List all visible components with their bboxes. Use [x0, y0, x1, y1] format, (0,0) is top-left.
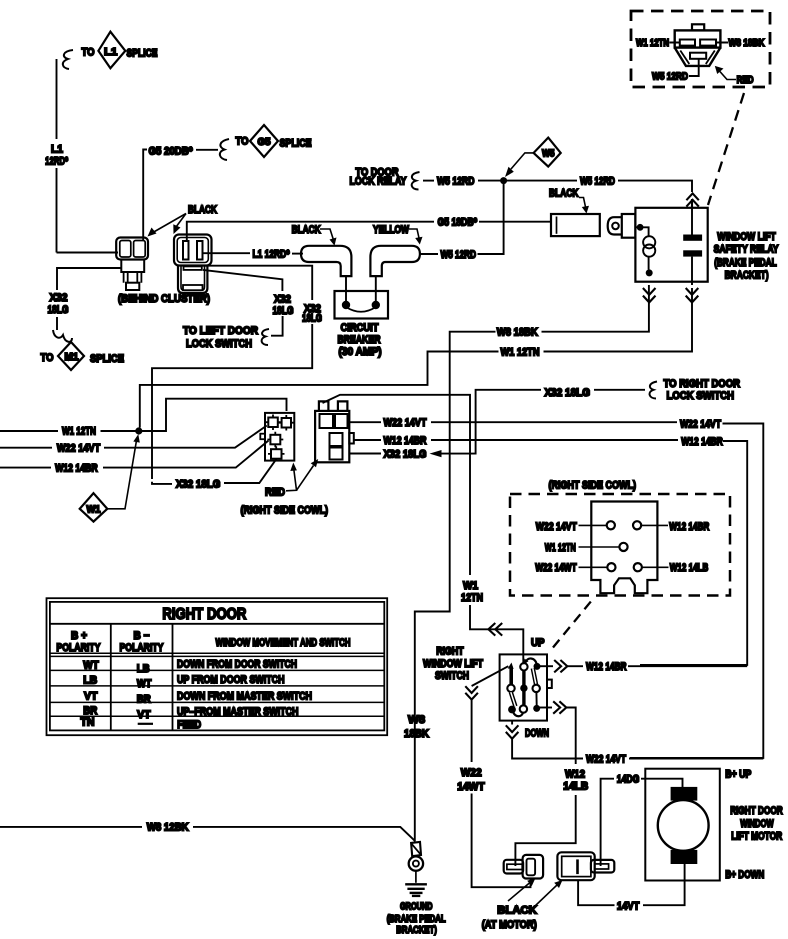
wire G5 20DB*	[143, 150, 147, 241]
svg-text:B −: B −	[134, 630, 150, 642]
svg-text:X32 18LG: X32 18LG	[176, 479, 220, 491]
svg-text:YELLOW: YELLOW	[373, 224, 409, 236]
wire W1 12TN from right block to switch	[323, 395, 471, 575]
svg-text:WINDOW LIFT: WINDOW LIFT	[423, 658, 483, 670]
wire W22 14VT from switch bottom	[511, 721, 513, 725]
svg-text:WT: WT	[137, 678, 152, 690]
svg-text:W5 12RD: W5 12RD	[652, 71, 688, 82]
pointer from W5 splice to junction	[511, 153, 534, 169]
wire W12 14BR from right block	[354, 439, 381, 441]
pin squares with nubs	[268, 418, 278, 428]
connector chevrons below relay left pin	[643, 288, 656, 302]
svg-text:W12 14BR: W12 14BR	[669, 521, 709, 533]
svg-text:TO: TO	[41, 352, 54, 364]
svg-text:RIGHT: RIGHT	[436, 645, 464, 657]
svg-text:TO: TO	[82, 47, 95, 59]
connector chevrons on W12 14LB	[553, 701, 566, 713]
svg-text:W12 14BR: W12 14BR	[586, 661, 627, 673]
connector chevrons on W22 14WT	[465, 686, 478, 699]
connector chevrons on W12 14BR	[554, 660, 567, 672]
inline connector at motor (left half)	[504, 855, 543, 879]
svg-text:W22: W22	[461, 767, 482, 779]
svg-text:W8 12BK: W8 12BK	[147, 822, 189, 834]
svg-text:BLACK: BLACK	[549, 188, 579, 200]
svg-text:LOCK RELAY: LOCK RELAY	[350, 176, 408, 188]
svg-text:TO LEFT DOOR: TO LEFT DOOR	[183, 325, 258, 337]
wire L1 12RD into left cluster connector	[57, 252, 119, 254]
svg-text:18LG: 18LG	[273, 305, 294, 317]
wire X32 18LG into cowl block	[152, 482, 172, 484]
wire W1 12TN from relay	[544, 288, 693, 352]
pin W22 14WT	[607, 563, 615, 571]
svg-text:BR: BR	[83, 705, 97, 717]
relay U window lift safety relay	[608, 208, 708, 285]
svg-text:BRACKET): BRACKET)	[725, 270, 769, 282]
svg-text:W5 12RD: W5 12RD	[580, 175, 615, 187]
svg-text:L1: L1	[104, 47, 117, 58]
svg-text:(RIGHT SIDE COWL): (RIGHT SIDE COWL)	[549, 480, 637, 492]
svg-text:VT: VT	[84, 690, 98, 702]
wire break to left door lock switch	[262, 329, 269, 345]
svg-text:(RIGHT SIDE COWL): (RIGHT SIDE COWL)	[241, 505, 329, 517]
svg-text:WINDOW: WINDOW	[740, 818, 774, 830]
svg-text:W22 14WT: W22 14WT	[535, 562, 577, 574]
svg-text:LOCK SWITCH: LOCK SWITCH	[667, 390, 735, 402]
svg-text:B +: B +	[71, 630, 87, 642]
pin leader lines	[579, 525, 669, 567]
svg-text:POLARITY: POLARITY	[56, 642, 101, 654]
svg-text:DOWN FROM DOOR SWITCH: DOWN FROM DOOR SWITCH	[177, 658, 297, 670]
svg-text:WINDOW LIFT: WINDOW LIFT	[717, 231, 776, 243]
connector (behind cluster) left	[116, 238, 148, 291]
svg-text:SPLICE: SPLICE	[280, 138, 312, 150]
dashed detail box	[510, 494, 730, 596]
svg-text:W22 14VT: W22 14VT	[536, 521, 577, 533]
svg-text:W8 18BK: W8 18BK	[729, 38, 766, 49]
svg-text:X32 18LG: X32 18LG	[545, 387, 591, 399]
wire W22 14WT from switch pole1	[472, 666, 509, 686]
fusible link black (cover)	[551, 214, 600, 236]
wire W8 12BK ground feed	[0, 826, 142, 828]
pin W8 18BK	[700, 40, 716, 46]
svg-text:(AT MOTOR): (AT MOTOR)	[482, 919, 537, 931]
svg-text:UP: UP	[531, 637, 545, 649]
wire W12 14BR from switch pole3	[540, 665, 553, 667]
svg-text:WT: WT	[83, 659, 99, 671]
svg-text:W22 14VT: W22 14VT	[680, 418, 721, 430]
table right door polarity	[47, 598, 388, 735]
node relay coil top	[637, 224, 644, 231]
svg-text:SPLICE: SPLICE	[127, 48, 158, 60]
svg-text:DOWN: DOWN	[525, 728, 549, 740]
svg-text:BRACKET): BRACKET)	[396, 925, 437, 936]
svg-text:CIRCUIT: CIRCUIT	[341, 322, 379, 334]
wire break to G5 splice	[220, 139, 229, 160]
svg-text:W8: W8	[408, 714, 425, 726]
switch S right window lift switch	[500, 654, 552, 720]
connector chevrons below relay right pin	[686, 288, 699, 302]
wire X32 18LG from cluster middle slot	[202, 266, 312, 300]
svg-text:W8 18BK: W8 18BK	[497, 327, 538, 339]
svg-text:G5: G5	[258, 137, 271, 148]
connector chevrons into relay top	[686, 193, 698, 207]
svg-text:UP FROM DOOR SWITCH: UP FROM DOOR SWITCH	[177, 674, 285, 686]
splice symbol M1	[41, 342, 125, 370]
wire W22 14VT left rail	[0, 447, 52, 449]
svg-text:W22 14VT: W22 14VT	[57, 443, 101, 455]
pole 2 contacts	[520, 663, 527, 670]
svg-text:18LG: 18LG	[302, 312, 322, 324]
svg-text:W1 12TN: W1 12TN	[545, 542, 576, 554]
svg-text:RED: RED	[265, 486, 285, 498]
svg-text:(BRAKE PEDAL: (BRAKE PEDAL	[714, 257, 777, 269]
relay pigtail connector (inset)	[631, 11, 770, 87]
wire W5 12RD from yellow elbow	[420, 253, 438, 255]
wire break to right door lock switch	[650, 382, 657, 399]
svg-text:(BEHIND CLUSTER): (BEHIND CLUSTER)	[118, 293, 210, 305]
wire W22 14VT from right block	[349, 421, 381, 423]
svg-text:W1 12TN: W1 12TN	[636, 38, 669, 49]
svg-text:W12 14BR: W12 14BR	[681, 436, 723, 448]
svg-text:W1 12TN: W1 12TN	[501, 347, 540, 359]
svg-text:18BK: 18BK	[404, 728, 429, 740]
svg-text:(BRAKE PEDAL: (BRAKE PEDAL	[387, 914, 446, 925]
pin W12 14BR	[633, 521, 641, 529]
svg-text:RIGHT DOOR: RIGHT DOOR	[162, 606, 246, 623]
svg-text:LB: LB	[137, 663, 150, 675]
splice symbol G5	[236, 125, 312, 157]
svg-text:(30 AMP): (30 AMP)	[339, 346, 382, 358]
svg-text:14DG: 14DG	[617, 774, 640, 786]
svg-text:W22 14VT: W22 14VT	[586, 754, 626, 766]
cowl inline connector (inset)	[510, 480, 730, 596]
svg-text:TO: TO	[236, 136, 249, 148]
svg-text:TN: TN	[81, 717, 95, 729]
wire boot yellow (elbow)	[370, 246, 420, 276]
wire X32 18LG from right block	[349, 453, 381, 455]
svg-text:X32: X32	[274, 294, 291, 306]
node W1 junction	[135, 427, 142, 434]
svg-text:RIGHT DOOR: RIGHT DOOR	[730, 805, 783, 817]
connector chevrons below switch	[506, 725, 519, 738]
column separators	[111, 624, 173, 731]
wire boot black (elbow)	[301, 246, 351, 276]
svg-text:SWITCH: SWITCH	[435, 670, 469, 682]
wire W5 12RD right segment	[504, 180, 577, 182]
svg-text:W12 14BR: W12 14BR	[384, 435, 427, 447]
svg-text:LIFT MOTOR: LIFT MOTOR	[731, 831, 782, 843]
svg-text:W22 14VT: W22 14VT	[384, 417, 427, 429]
pin W22 14VT	[607, 521, 615, 529]
wire 14VT motor return	[643, 864, 685, 905]
svg-text:W5 12RD: W5 12RD	[441, 249, 477, 261]
wire W12 14BR left rail	[0, 467, 51, 469]
svg-text:UP–FROM MASTER SWITCH: UP–FROM MASTER SWITCH	[177, 706, 299, 718]
pin W1 12TN	[619, 543, 627, 551]
connector housing	[692, 24, 704, 30]
svg-text:SPLICE: SPLICE	[90, 353, 124, 365]
svg-text:M1: M1	[65, 352, 79, 363]
wire W1 12TN left rail	[0, 430, 58, 432]
wire L1 12RD* to elbow	[203, 252, 251, 254]
wire elbow to breaker right	[375, 276, 377, 301]
svg-text:LB: LB	[83, 674, 97, 686]
svg-text:WINDOW MOVEMENT AND SWITCH: WINDOW MOVEMENT AND SWITCH	[216, 637, 351, 649]
pole 1 contacts	[508, 663, 514, 670]
wire 14DG motor feed	[601, 779, 614, 866]
dashed leader from switch to cowl inset	[553, 600, 593, 648]
svg-text:L1 12RD*: L1 12RD*	[253, 249, 291, 261]
circuit breaker (30 amp)	[335, 291, 389, 319]
svg-text:B+ DOWN: B+ DOWN	[725, 869, 764, 881]
pin W12 14LB	[634, 563, 642, 571]
svg-text:X32 18LG: X32 18LG	[384, 448, 427, 460]
svg-text:SAFETY RELAY: SAFETY RELAY	[714, 244, 780, 256]
splice symbol W5	[534, 138, 561, 167]
pin W5 12RD	[690, 53, 706, 59]
connector block left (right side cowl)	[260, 413, 294, 462]
svg-text:BR: BR	[137, 693, 151, 705]
svg-text:X32: X32	[50, 292, 68, 304]
wire break to door lock relay	[412, 172, 420, 190]
svg-text:14WT: 14WT	[457, 781, 485, 793]
connector (behind cluster) right	[174, 235, 212, 294]
header separator	[50, 653, 384, 656]
wire break to L1 splice	[63, 50, 73, 69]
svg-text:W12 14BR: W12 14BR	[55, 463, 98, 475]
svg-text:GROUND: GROUND	[400, 901, 433, 912]
pointer from W1 splice to junction	[107, 441, 136, 509]
wire W5 12RD to door lock relay	[423, 180, 434, 182]
inline connector at motor (right half)	[557, 852, 614, 880]
svg-text:W1: W1	[87, 505, 101, 516]
ring terminal	[409, 842, 423, 883]
svg-text:18LG: 18LG	[48, 304, 69, 316]
svg-text:LOCK SWITCH: LOCK SWITCH	[186, 338, 252, 350]
svg-text:W12 14LB: W12 14LB	[670, 562, 709, 574]
row separators	[50, 670, 384, 716]
pole 3 contacts	[534, 663, 541, 670]
wire break to M1 splice	[53, 330, 72, 342]
svg-text:BLACK: BLACK	[188, 204, 217, 216]
svg-text:BREAKER: BREAKER	[338, 334, 381, 346]
svg-text:W12: W12	[565, 768, 585, 780]
svg-text:12TN: 12TN	[461, 592, 483, 604]
relay contact bars	[683, 235, 702, 241]
svg-text:W1: W1	[463, 580, 478, 592]
dashed leader from inset to relay	[708, 93, 744, 205]
svg-text:14LB: 14LB	[563, 780, 588, 792]
relay bracket plug	[622, 214, 636, 238]
svg-text:W5: W5	[542, 149, 555, 160]
svg-text:W1 12TN: W1 12TN	[62, 426, 96, 438]
connector body	[591, 502, 657, 594]
wire W12 14LB from switch pole3 bottom	[539, 707, 552, 709]
svg-text:14VT: 14VT	[617, 900, 640, 912]
svg-text:G5 20DB*: G5 20DB*	[149, 146, 194, 158]
wire L1 12RD* vertical from L1 splice	[56, 59, 58, 139]
svg-text:BLACK: BLACK	[497, 905, 537, 917]
splice symbol W1	[80, 493, 108, 521]
svg-text:DOWN FROM MASTER SWITCH: DOWN FROM MASTER SWITCH	[177, 690, 312, 702]
svg-text:RED: RED	[737, 75, 754, 86]
svg-text:FEED: FEED	[177, 719, 201, 731]
node W5 junction	[500, 177, 507, 184]
svg-text:TO RIGHT DOOR: TO RIGHT DOOR	[664, 378, 741, 390]
connector chevrons on W1 12TN feed	[488, 623, 502, 636]
svg-text:12RD*: 12RD*	[45, 155, 69, 167]
title separator	[50, 623, 384, 625]
dashed detail box	[631, 11, 770, 87]
ground symbol	[405, 884, 427, 896]
svg-text:POLARITY: POLARITY	[120, 642, 165, 654]
svg-text:L1: L1	[51, 143, 63, 155]
relay coil	[640, 227, 649, 237]
svg-text:B+ UP: B+ UP	[725, 769, 751, 781]
svg-text:BLACK: BLACK	[292, 224, 321, 236]
node relay coil bottom	[646, 269, 653, 276]
wire X32 18LG from left cluster connector	[57, 268, 122, 290]
svg-text:W5 12RD: W5 12RD	[437, 175, 475, 187]
wire G5 18DB* horizontal	[187, 222, 434, 241]
wire X32 18LG to left door lock switch	[203, 270, 282, 291]
splice symbol L1	[82, 32, 158, 68]
svg-text:VT: VT	[137, 709, 151, 721]
svg-text:G5 18DB*: G5 18DB*	[438, 216, 478, 228]
wire elbow to breaker left	[345, 276, 347, 301]
rocker arcs	[525, 658, 537, 663]
pin W1 12TN	[680, 40, 695, 46]
motor M right door window lift motor	[645, 769, 720, 881]
wire W8 18BK from relay	[542, 285, 649, 332]
connector block right (right side cowl)	[315, 401, 354, 462]
